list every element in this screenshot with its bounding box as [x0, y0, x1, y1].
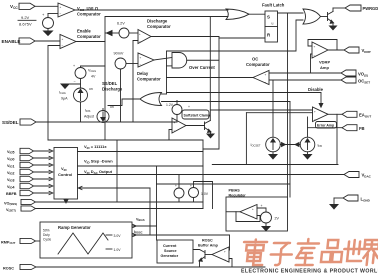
current source ICHG 9uA	[59, 87, 93, 122]
wire ramp VBIAS output	[132, 218, 157, 228]
ground under PWRGD transistor	[330, 26, 337, 30]
wire top rail y140	[48, 139, 203, 141]
pin VID1	[7, 162, 53, 168]
svg-text:VID = 11111x: VID = 11111x	[84, 144, 107, 150]
current source IDIS discharge	[84, 105, 114, 123]
transistor Q-softstart clamp	[186, 121, 211, 135]
svg-text:2V: 2V	[275, 217, 280, 221]
svg-text:Control: Control	[58, 172, 72, 177]
wire top bus to fault OR gate second input	[105, 17, 228, 42]
ground under softstart transistor	[207, 134, 214, 138]
block PBIAS regulator enclosure	[226, 197, 288, 231]
svg-text:SS/DEL: SS/DEL	[102, 81, 118, 86]
wire disable bus to error amp	[167, 93, 322, 107]
OR gate discharge control (mirrored)	[140, 93, 162, 106]
svg-text:Error Amp: Error Amp	[317, 124, 334, 128]
node VID=11111x output	[78, 144, 204, 152]
svg-text:VID Step -Down: VID Step -Down	[84, 159, 113, 165]
pin FB	[308, 125, 365, 132]
svg-text:FB: FB	[359, 126, 365, 131]
wire branch to ramp VBIAS	[156, 166, 158, 240]
wire softstart clamp to error amp plus	[210, 109, 312, 111]
op-amp softstart clamp amp	[172, 118, 186, 133]
voltage source 1.0V offset B	[189, 182, 213, 209]
ground left of VCHG	[61, 80, 81, 89]
pin VID0	[7, 155, 53, 161]
svg-text:Comparator: Comparator	[77, 12, 101, 17]
svg-text:Comparator: Comparator	[137, 77, 161, 82]
op-amp U-Delay comparator	[126, 53, 161, 82]
svg-text:+: +	[188, 105, 190, 109]
ground at LGND	[330, 205, 338, 210]
svg-text:−: −	[265, 80, 267, 84]
svg-text:VDAC: VDAC	[362, 173, 372, 179]
svg-text:90mV: 90mV	[114, 52, 124, 56]
svg-text:Source: Source	[164, 249, 177, 253]
wire OC output	[167, 77, 254, 79]
wire FB network left leg	[245, 113, 247, 165]
svg-text:Generator: Generator	[161, 254, 179, 258]
svg-text:S: S	[267, 15, 270, 20]
svg-text:BBFB: BBFB	[6, 192, 17, 196]
svg-text:SS/DEL: SS/DEL	[2, 120, 19, 125]
svg-text:1.2V: 1.2V	[166, 103, 174, 107]
wire bus drop to clamp node	[209, 17, 211, 121]
svg-text:Current: Current	[163, 244, 177, 248]
svg-text:1.0V: 1.0V	[114, 248, 122, 252]
svg-text:+: +	[224, 250, 226, 254]
svg-text:−: −	[62, 44, 64, 48]
pin VSET	[6, 206, 203, 213]
svg-text:Duty: Duty	[43, 233, 50, 237]
label SS/DEL Discharge	[102, 81, 123, 92]
wire SS/DEL bus	[36, 121, 177, 123]
block Current Source Generator	[157, 240, 193, 263]
svg-text:OC: OC	[252, 57, 258, 62]
svg-text:−: −	[314, 118, 316, 122]
op-amp U-Discharge comparator	[129, 19, 171, 44]
svg-text:EAOUT: EAOUT	[359, 113, 371, 119]
op-amp U-Enable comparator	[60, 29, 101, 49]
wire ramp IROSC output	[132, 188, 230, 237]
svg-text:V(SET): V(SET)	[6, 208, 16, 213]
svg-text:IROSC: IROSC	[134, 230, 143, 235]
wire OR1 to latch S	[249, 13, 265, 15]
svg-text:8.675V: 8.675V	[19, 22, 32, 27]
svg-text:Delay: Delay	[137, 71, 149, 76]
diode into 6.2V source	[105, 31, 119, 36]
wire EA lower input rail	[246, 112, 312, 114]
wire FB network bottom	[212, 164, 338, 166]
svg-text:+: +	[174, 121, 176, 125]
svg-text:+: +	[140, 55, 142, 59]
latch Fault Latch	[262, 3, 285, 43]
op-amp VDRP Amp	[312, 42, 330, 70]
watermark char chan	[296, 239, 320, 265]
wire VDRP minus from VO	[311, 54, 313, 73]
svg-text:+: +	[314, 45, 316, 49]
svg-text:9μA: 9μA	[61, 97, 68, 101]
svg-text:VCHG: VCHG	[88, 69, 96, 74]
svg-text:VID1: VID1	[7, 164, 14, 169]
svg-text:VID5: VID5	[7, 150, 14, 155]
op-amp OC comparator (points left)	[246, 57, 270, 85]
svg-text:Ramp Generator: Ramp Generator	[58, 225, 91, 230]
pin LGND	[334, 195, 371, 205]
svg-text:Enable: Enable	[77, 29, 91, 34]
pin VCC	[10, 3, 35, 10]
svg-text:IFB: IFB	[318, 144, 323, 149]
voltage source VCHG 4V	[73, 64, 105, 88]
transistor Q-ROSC mirror	[193, 250, 212, 268]
svg-text:Softstart Clamp: Softstart Clamp	[184, 114, 212, 118]
wire AND output to fault latch R	[187, 59, 219, 61]
watermark eepw logo	[242, 239, 378, 265]
pin VDRP	[328, 47, 371, 54]
pin VO(S)	[269, 70, 368, 77]
ground under UVLO reference	[44, 31, 53, 36]
pin EAOUT	[328, 111, 371, 118]
svg-text:+: +	[314, 110, 316, 114]
current source IOCSET	[251, 80, 281, 155]
svg-text:+: +	[265, 73, 267, 77]
svg-text:3.0V: 3.0V	[114, 234, 122, 238]
AND gate Over Current	[172, 53, 215, 70]
block Ramp Generator	[40, 222, 132, 258]
wire OR top input	[162, 93, 167, 95]
svg-text:PWRGD: PWRGD	[363, 6, 378, 11]
ground under IOCSET	[269, 155, 277, 160]
svg-text:+: +	[60, 5, 62, 9]
svg-text:OCSET: OCSET	[358, 79, 370, 85]
OR gate PWRGD	[303, 9, 321, 24]
wire fault net to PWRGD OR	[167, 20, 304, 51]
op-amp U-UVLO comparator	[58, 3, 101, 17]
voltage source 1.2V softstart	[166, 101, 190, 123]
svg-text:PBIAS: PBIAS	[229, 189, 241, 193]
pin OCSET	[269, 77, 370, 84]
watermark char shi	[343, 240, 364, 261]
wire buffer amp plus input	[229, 235, 231, 250]
pin VID5	[7, 148, 53, 154]
svg-text:VID DAC Output: VID DAC Output	[84, 169, 113, 175]
svg-text:−: −	[174, 129, 176, 133]
wire VID control bottom tap	[64, 199, 68, 203]
svg-text:Amp: Amp	[320, 65, 329, 70]
pin VID2	[7, 169, 53, 175]
svg-text:+: +	[190, 184, 192, 188]
svg-text:VID2: VID2	[7, 171, 14, 176]
watermark char dian	[242, 240, 268, 266]
wire VDRP feedback	[308, 40, 337, 51]
pin VID3	[7, 176, 53, 182]
wire enable output drop	[104, 42, 106, 141]
svg-text:+: +	[62, 37, 64, 41]
wire buffer amp minus input to ROSC	[229, 259, 232, 268]
svg-text:−: −	[74, 80, 76, 84]
wire between current sources	[280, 143, 300, 147]
watermark char zi	[270, 243, 293, 265]
pin PWRGD	[333, 5, 378, 11]
node VID Step-Down output	[78, 159, 204, 167]
svg-text:Discharge: Discharge	[102, 87, 123, 92]
svg-text:−: −	[314, 54, 316, 58]
wire AND lower input	[167, 65, 173, 67]
svg-text:Comparator: Comparator	[147, 24, 171, 29]
svg-text:−: −	[252, 215, 254, 219]
svg-text:+: +	[175, 184, 177, 188]
svg-text:Over Current: Over Current	[189, 65, 215, 70]
svg-text:VO(S): VO(S)	[358, 72, 368, 78]
svg-text:Fault Latch: Fault Latch	[262, 3, 285, 8]
svg-text:1.0V: 1.0V	[201, 192, 209, 196]
OR gate fault input	[226, 9, 249, 20]
wire fault net vertical	[166, 51, 168, 94]
svg-text:6.2V: 6.2V	[117, 22, 125, 26]
voltage source 2V	[261, 204, 280, 227]
svg-text:Regulator: Regulator	[229, 194, 247, 198]
voltage source 90mV	[114, 52, 127, 123]
svg-text:Comparator: Comparator	[77, 34, 101, 39]
wire vertical bus from latch to PBIAS	[287, 13, 289, 197]
svg-text:+: +	[252, 207, 254, 211]
svg-text:VDRP: VDRP	[362, 48, 371, 54]
svg-text:+: +	[73, 64, 75, 68]
wire EAOUT drop	[336, 114, 338, 164]
svg-text:IOCSET: IOCSET	[251, 143, 261, 148]
wire PBIAS output	[226, 211, 240, 213]
watermark char pin	[321, 240, 343, 262]
svg-text:IDIS: IDIS	[85, 109, 91, 114]
pin VID4	[7, 183, 53, 189]
block VID Control	[54, 148, 78, 200]
wire ENABLE to comparator	[35, 40, 60, 42]
ground under 2V source	[262, 227, 270, 231]
wire mid rail y184	[157, 183, 291, 185]
svg-text:−: −	[224, 258, 226, 262]
wire vertical x203	[202, 140, 204, 209]
svg-text:u: u	[272, 22, 274, 26]
wire VID right side input	[78, 186, 151, 189]
transistor Q-PWRGD open drain	[321, 8, 334, 26]
svg-text:VDRP: VDRP	[319, 60, 330, 65]
wire enable comparator output	[76, 41, 105, 43]
svg-text:4V: 4V	[91, 75, 96, 79]
wire fault bus down to PBIAS	[289, 102, 291, 198]
op-amp ROSC Buffer Amp (points left)	[198, 239, 229, 263]
svg-text:VID4: VID4	[7, 185, 15, 190]
svg-text:ENABLE: ENABLE	[2, 39, 21, 44]
wire softstart amp minus	[169, 130, 172, 141]
op-amp Error Amp	[313, 107, 337, 128]
svg-text:ROSC: ROSC	[3, 267, 14, 271]
wire delay output to AND	[154, 58, 172, 61]
wire vertical x117	[116, 140, 118, 202]
svg-text:on: on	[89, 87, 93, 91]
pin VDAC	[344, 172, 372, 179]
wire enable minus input	[48, 46, 60, 141]
svg-text:LGND: LGND	[361, 197, 371, 203]
pin BBFB	[6, 190, 53, 196]
wire discharge control from OR	[108, 99, 140, 106]
voltage source V-UVLO reference	[42, 12, 58, 31]
svg-text:VID: VID	[61, 166, 67, 172]
wire latch Q output	[278, 12, 304, 14]
svg-text:−: −	[60, 12, 62, 16]
pin ROSC	[3, 264, 265, 270]
ground under IFB	[304, 155, 312, 160]
wire OR bottom input	[162, 101, 291, 103]
svg-text:Comparator: Comparator	[246, 62, 270, 67]
wire VCC to UVLO	[35, 5, 58, 7]
svg-text:Buffer Amp: Buffer Amp	[198, 244, 219, 248]
svg-text:RMPOUT: RMPOUT	[1, 241, 16, 246]
wire PBIAS feedback loop	[236, 212, 260, 222]
current source IFB	[300, 137, 322, 154]
svg-text:VO(SNS): VO(SNS)	[4, 202, 17, 207]
svg-text:VID0: VID0	[7, 157, 14, 162]
svg-text:9.2V: 9.2V	[21, 15, 30, 20]
svg-text:Cycle: Cycle	[43, 238, 51, 242]
pin SS/DEL	[2, 119, 36, 125]
voltage source 6.2V	[117, 22, 129, 39]
node: UVLO threshold fraction 9.2V/8.675V	[18, 15, 36, 27]
svg-text:VID3: VID3	[7, 178, 14, 183]
svg-text:Disable: Disable	[308, 87, 324, 92]
svg-text:50%: 50%	[43, 229, 50, 233]
svg-text:Adjust: Adjust	[84, 115, 94, 119]
block Softstart Clamp	[182, 110, 211, 119]
wire discharge output	[151, 37, 219, 150]
voltage source offset A	[174, 175, 184, 203]
svg-text:+: +	[261, 204, 263, 208]
watermark char jie	[363, 240, 378, 265]
wire UVLO output to fault OR gate	[75, 9, 228, 11]
wire discharge minus input to SS/DEL	[133, 41, 138, 123]
svg-text:Discharge: Discharge	[147, 19, 168, 24]
svg-text:−: −	[140, 63, 142, 67]
pin ENABLE	[2, 38, 36, 44]
wire FB to error amp minus	[307, 117, 309, 137]
svg-text:VBIAS: VBIAS	[136, 218, 145, 223]
pin RMPOUT	[1, 238, 40, 245]
op-amp PBIAS Regulator (points left)	[229, 189, 258, 220]
svg-text:ICHG: ICHG	[59, 91, 66, 96]
wire PBIAS plus to 2V	[257, 208, 266, 212]
svg-text:ELECTRONIC ENGINEERING & PRODU: ELECTRONIC ENGINEERING & PRODUCT WORLD	[241, 269, 378, 275]
pin VOSNS	[4, 199, 203, 206]
node VID DAC Output	[78, 169, 345, 175]
svg-text:ROSC: ROSC	[202, 239, 213, 243]
svg-text:−: −	[139, 39, 141, 43]
